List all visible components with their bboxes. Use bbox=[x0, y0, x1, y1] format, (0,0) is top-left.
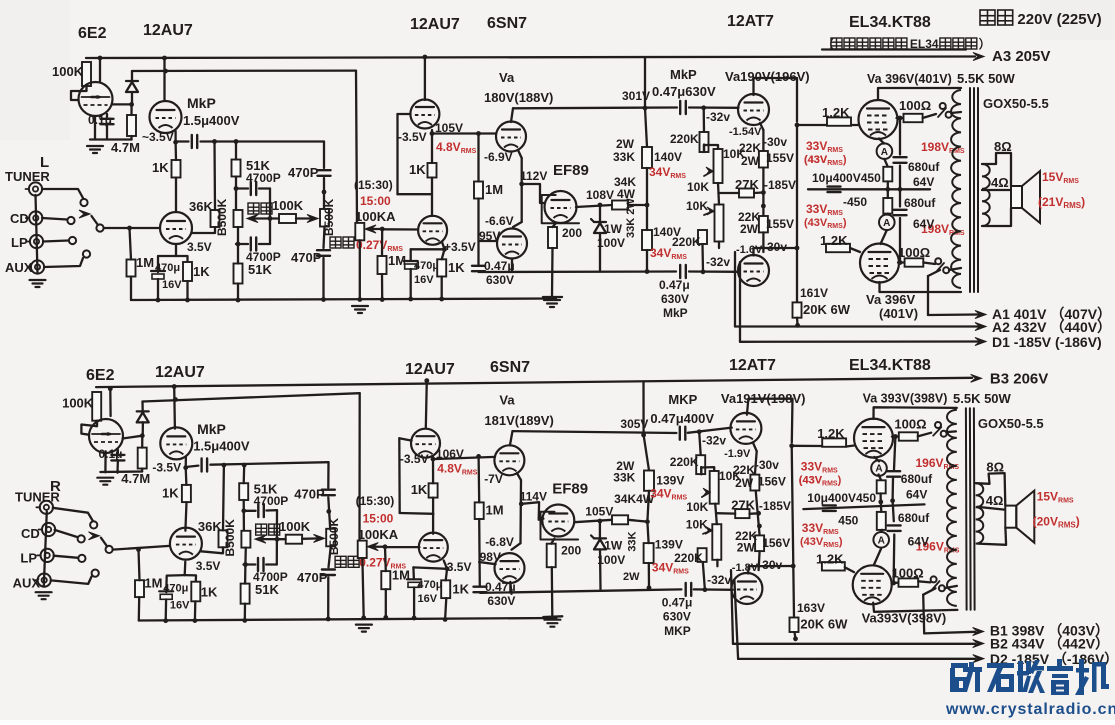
junction rail2 V2 bbox=[173, 397, 178, 402]
resistor 1M grid bbox=[135, 580, 144, 597]
wire cathode bus bbox=[803, 504, 924, 509]
tube 6SN7a bbox=[494, 445, 524, 475]
capacitor 680uf upper bbox=[887, 470, 900, 472]
wire 20K to A2 bbox=[795, 632, 796, 639]
resistor 34K 4W bbox=[612, 201, 628, 210]
resistor 450 lower bbox=[883, 198, 892, 214]
svg-text:180V(188V): 180V(188V) bbox=[484, 90, 553, 105]
junction bbox=[412, 616, 417, 621]
svg-text:680uf: 680uf bbox=[908, 160, 940, 174]
svg-text:156V: 156V bbox=[758, 474, 786, 488]
svg-text:6SN7: 6SN7 bbox=[490, 359, 530, 376]
junction bbox=[321, 297, 326, 302]
wire 470u to gnd bbox=[157, 279, 159, 300]
zener 1W 100V bbox=[594, 537, 606, 539]
wire 12AT7a plate bbox=[754, 78, 798, 122]
wire 470P low bbox=[323, 178, 325, 209]
svg-text:105V: 105V bbox=[585, 504, 613, 518]
potentiometer 100KA bbox=[355, 223, 364, 240]
wire 27K right bbox=[750, 512, 759, 515]
wire 4.7M lead bbox=[141, 436, 143, 448]
wire 200 gnd bbox=[551, 248, 554, 297]
wire V3 plate drop bbox=[426, 381, 427, 428]
switch blade low bbox=[931, 581, 939, 590]
wire pivot to grid bbox=[104, 227, 160, 229]
wire treble bottom bbox=[329, 546, 331, 567]
switch contact c bbox=[931, 576, 937, 582]
wire pot top link bbox=[701, 467, 714, 474]
wire secondary bottom bbox=[977, 528, 1006, 545]
wire 220K low gnd bbox=[701, 244, 704, 272]
svg-text:10K: 10K bbox=[686, 517, 708, 531]
wire 12AT7b plate bbox=[748, 566, 793, 574]
svg-text:163V: 163V bbox=[797, 601, 825, 615]
wire screen low bbox=[892, 581, 899, 584]
junction 51K low bbox=[236, 242, 241, 247]
wire 33K low bottom bbox=[648, 563, 651, 588]
wire V2 plate drop bbox=[163, 58, 165, 101]
svg-text:4.7M: 4.7M bbox=[121, 471, 150, 486]
resistor 22K 2W upper bbox=[759, 151, 768, 168]
tube 12AU7b bbox=[160, 212, 192, 244]
label bass CJK bbox=[248, 203, 259, 214]
ground 6E2 bbox=[97, 477, 113, 479]
svg-text:B500K: B500K bbox=[327, 517, 341, 555]
jack TUNER bbox=[40, 501, 53, 514]
wire pivot to grid bbox=[113, 546, 170, 550]
svg-text:100K: 100K bbox=[279, 519, 311, 534]
tube 12AU7b bbox=[170, 528, 202, 560]
capacitor 4700P lower bbox=[250, 238, 252, 251]
capacitor 4700P upper bbox=[250, 182, 252, 195]
wire V3 grid link bbox=[400, 512, 434, 515]
wire rail2 bbox=[132, 69, 356, 72]
wire plate rail bbox=[513, 106, 677, 109]
transformer core bbox=[969, 88, 971, 292]
wire screen bbox=[897, 117, 904, 119]
resistor 100K bbox=[82, 62, 91, 86]
wire D1 drop bbox=[739, 262, 741, 342]
wire to EF89 grid bbox=[522, 184, 545, 203]
svg-text:100V: 100V bbox=[597, 553, 625, 567]
svg-text:16V: 16V bbox=[418, 593, 438, 605]
selector pivot bbox=[106, 546, 113, 553]
svg-text:-32v: -32v bbox=[707, 573, 731, 587]
wire 4700P low right bbox=[259, 243, 270, 245]
junction bass wiper bbox=[268, 216, 273, 221]
svg-text:680uf: 680uf bbox=[901, 472, 933, 486]
ammeter A upper bbox=[877, 143, 893, 159]
wire cathode to cap bbox=[176, 140, 189, 142]
resistor 1.2K upper bbox=[827, 117, 851, 125]
tube EL34b bbox=[853, 565, 892, 604]
capacitor 470u 16V V4 bbox=[407, 578, 421, 580]
svg-text:33K: 33K bbox=[613, 150, 635, 164]
wire 33K feed2 bbox=[645, 108, 647, 147]
zener 1W 100V bbox=[594, 221, 606, 223]
svg-text:B2 434V （442V）: B2 434V （442V） bbox=[990, 636, 1109, 652]
capacitor 0.47u 630V bbox=[472, 265, 485, 267]
junction grid2 bbox=[701, 269, 706, 274]
svg-text:1K: 1K bbox=[152, 160, 169, 175]
switch blade low bbox=[936, 263, 944, 272]
svg-text:Va: Va bbox=[499, 393, 515, 408]
svg-text:27K: 27K bbox=[735, 177, 759, 192]
wire 4.7M lead bbox=[130, 104, 132, 115]
arrowhead B3 bbox=[971, 374, 982, 382]
svg-text:10K: 10K bbox=[687, 180, 709, 194]
resistor 100R lower bbox=[899, 578, 919, 586]
svg-text:630V: 630V bbox=[663, 610, 691, 624]
wire ground bus bbox=[139, 618, 557, 621]
junction bbox=[242, 618, 247, 623]
wire 51K low gnd bbox=[237, 284, 239, 301]
svg-text:TUNER: TUNER bbox=[5, 169, 50, 184]
wire wiper to grid bbox=[385, 546, 419, 548]
junction bbox=[357, 297, 362, 302]
contact TUNER bbox=[80, 199, 87, 206]
wire 680 low bbox=[891, 478, 894, 501]
svg-text:Va: Va bbox=[499, 70, 515, 85]
wire 1K to V2b plate bbox=[175, 178, 177, 213]
tube EL34a bbox=[854, 419, 893, 458]
svg-text:450: 450 bbox=[838, 513, 858, 527]
selector pivot bbox=[96, 224, 103, 231]
wire 51K bottom bbox=[235, 177, 237, 211]
svg-text:10μ400V450: 10μ400V450 bbox=[812, 171, 881, 185]
wire 27K left bbox=[716, 512, 735, 515]
capacitor 0.47u 630V bbox=[474, 586, 487, 588]
ground mid bbox=[356, 623, 372, 625]
wire 680 drop bbox=[894, 437, 895, 470]
svg-text:1M: 1M bbox=[485, 182, 503, 197]
tube 12AU7c bbox=[410, 100, 439, 129]
tube 12AT7b bbox=[738, 255, 769, 286]
wire A1 link bbox=[923, 588, 935, 594]
wire 4700P low left bbox=[236, 243, 248, 245]
svg-text:MKP: MKP bbox=[668, 392, 697, 407]
wire 1K V4 gnd bbox=[445, 598, 446, 619]
wire 1K bottom bbox=[432, 498, 434, 534]
svg-text:4Ω: 4Ω bbox=[991, 175, 1009, 190]
resistor 36K bbox=[219, 530, 228, 547]
arrowhead A2 bbox=[975, 323, 986, 331]
ground EF89 bbox=[544, 619, 560, 621]
wire diode top bbox=[131, 71, 133, 81]
wire screen bbox=[892, 435, 899, 437]
svg-text:12AT7: 12AT7 bbox=[727, 13, 774, 30]
tube 12AU7c bbox=[411, 429, 440, 458]
svg-text:470P: 470P bbox=[297, 570, 328, 585]
arrowhead D1 bbox=[973, 655, 984, 663]
ground 6E2 bbox=[87, 145, 103, 147]
wire tone top link bbox=[323, 142, 325, 169]
svg-text:139V: 139V bbox=[655, 538, 683, 552]
junction 51K low bbox=[243, 562, 248, 567]
wire zener top bbox=[599, 205, 601, 222]
junction 112V bbox=[519, 182, 524, 187]
resistor 4.7M bbox=[138, 448, 147, 469]
svg-text:6E2: 6E2 bbox=[86, 367, 115, 384]
svg-text:1M: 1M bbox=[144, 576, 162, 591]
wire A1 drop bbox=[927, 276, 929, 315]
contact LP bbox=[78, 555, 85, 562]
resistor 1K V3 bbox=[428, 163, 437, 178]
capacitor MkP 1.5u400V bbox=[200, 459, 202, 472]
svg-text:630V: 630V bbox=[486, 273, 514, 287]
switch blade bbox=[938, 108, 946, 117]
junction bbox=[383, 615, 388, 620]
wire 1M down bbox=[478, 519, 481, 586]
wire cath chain2 bbox=[756, 491, 760, 536]
wire 51K top bbox=[243, 465, 246, 483]
svg-text:1K: 1K bbox=[409, 162, 426, 177]
tube 6E2 bbox=[89, 419, 123, 453]
wire 4700P low left bbox=[244, 563, 256, 565]
capacitor 680uf lower bbox=[888, 524, 901, 526]
svg-text:0.47μ400V: 0.47μ400V bbox=[650, 411, 714, 426]
wire cathode left to 470u bbox=[166, 575, 184, 592]
svg-text:EL34.KT88: EL34.KT88 bbox=[849, 357, 931, 374]
svg-text:A2 432V （440V）: A2 432V （440V） bbox=[992, 319, 1111, 335]
wire 33K low bottom bbox=[646, 250, 648, 272]
wire cap to 12AT7a grid bbox=[688, 428, 732, 433]
wire 1K V4 gnd bbox=[441, 277, 443, 300]
resistor 51K lower bbox=[241, 584, 250, 604]
wire 1M to gnd bbox=[138, 597, 141, 620]
junction zener bbox=[598, 519, 603, 524]
wire cath to 12AT7b bbox=[762, 232, 764, 252]
wire 1M to gnd bbox=[130, 277, 132, 301]
svg-text:114V: 114V bbox=[520, 489, 547, 503]
capacitor 470P lower bbox=[317, 249, 330, 251]
svg-text:MKP: MKP bbox=[664, 624, 691, 638]
wire 1.2K to grid bbox=[851, 124, 859, 126]
wire screen sw bbox=[918, 433, 931, 437]
wire gnd bus EF89 bbox=[543, 296, 562, 298]
capacitor 680uf lower bbox=[894, 209, 907, 211]
wire bypass vertical bbox=[276, 510, 279, 564]
wire pot bottom bbox=[714, 504, 717, 514]
wire 33K feed2 bbox=[644, 435, 649, 471]
svg-text:~3.5V: ~3.5V bbox=[142, 130, 174, 144]
arrowhead D1 bbox=[975, 338, 986, 346]
wire 51K top bbox=[235, 142, 237, 160]
svg-text:1M: 1M bbox=[486, 503, 504, 518]
capacitor 470P upper bbox=[322, 489, 335, 491]
resistor 450 lower bbox=[877, 512, 886, 530]
svg-text:220K: 220K bbox=[674, 551, 703, 565]
wire 6SN7a plate bbox=[511, 108, 513, 122]
svg-text:(15:30): (15:30) bbox=[354, 178, 393, 192]
wire 680low bottom bbox=[899, 218, 901, 263]
junction 301V bbox=[641, 433, 646, 438]
capacitor 0.1u bbox=[101, 118, 114, 120]
wire wiper link bbox=[257, 538, 286, 540]
capacitor MkP 1.5u400V bbox=[191, 135, 193, 148]
svg-text:33K: 33K bbox=[613, 471, 635, 485]
wire 27K right bbox=[754, 191, 763, 194]
svg-text:64V: 64V bbox=[906, 487, 927, 501]
wire 220K drop bbox=[703, 108, 706, 132]
wire diode top bbox=[141, 402, 143, 412]
junction 140V bbox=[645, 203, 650, 208]
svg-text:(15:30): (15:30) bbox=[356, 494, 395, 508]
resistor 1K V2a cathode bbox=[182, 485, 191, 502]
svg-text:）: ） bbox=[979, 36, 991, 51]
wire cathode left to 470u bbox=[158, 256, 176, 272]
resistor 22K 2W upper bbox=[750, 475, 759, 491]
svg-text:100K: 100K bbox=[272, 198, 304, 213]
svg-text:0.47μ: 0.47μ bbox=[662, 596, 693, 610]
selector wiper arm bbox=[92, 216, 99, 225]
wire cath chain bbox=[755, 451, 757, 474]
wiper 10K upper bbox=[704, 171, 713, 176]
wire sw to tap low bbox=[949, 268, 961, 270]
junction 680 top bbox=[893, 434, 898, 439]
switch contact d bbox=[939, 585, 945, 591]
svg-text:220K: 220K bbox=[672, 235, 701, 249]
wire sw to tap bbox=[946, 430, 956, 433]
resistor 220K lower bbox=[698, 230, 707, 244]
tube 6SN7a bbox=[496, 122, 526, 152]
junction bbox=[108, 386, 113, 391]
svg-text:-3.5V: -3.5V bbox=[152, 460, 181, 474]
contact LP bbox=[69, 237, 76, 244]
capacitor 0.47u MkP bbox=[679, 101, 681, 114]
wire cathode right to 1K bbox=[185, 575, 196, 582]
wire V3 grid drop bbox=[398, 438, 401, 513]
wire 6E2 supply drop bbox=[109, 389, 112, 416]
wire 100K to 6E2 grid bbox=[81, 421, 97, 435]
wire pot bottom bbox=[717, 183, 720, 193]
junction -185V bbox=[756, 511, 761, 516]
svg-text:8Ω: 8Ω bbox=[994, 139, 1012, 154]
wire 1K lead top bbox=[174, 142, 177, 160]
svg-text:200: 200 bbox=[561, 544, 581, 558]
svg-text:1.2K: 1.2K bbox=[816, 551, 844, 566]
wire V2 plate drop bbox=[173, 387, 176, 429]
junction -185V bbox=[761, 190, 766, 195]
svg-text:AUX: AUX bbox=[13, 575, 41, 590]
wire volume wiper bbox=[367, 228, 382, 230]
svg-text:155V: 155V bbox=[766, 217, 794, 231]
wire cathode drop bbox=[521, 158, 523, 222]
junction cathode bbox=[183, 465, 188, 470]
wire 680low top bbox=[899, 189, 901, 206]
treble wiper arrowhead bbox=[307, 215, 318, 223]
resistor 1.2K lower bbox=[822, 562, 845, 570]
junction cath2 bbox=[757, 524, 762, 529]
wire 1K to gnd bbox=[194, 601, 197, 620]
wire V3 cathode bbox=[431, 130, 433, 134]
svg-text:12AU7: 12AU7 bbox=[410, 16, 460, 33]
potentiometer 10K upper bbox=[714, 149, 723, 183]
wire V3 grid drop bbox=[396, 114, 398, 194]
svg-text:3.5V: 3.5V bbox=[196, 559, 221, 573]
wire 450low to A bbox=[880, 530, 883, 531]
wire 27K left bbox=[719, 192, 740, 194]
junction treble top bbox=[322, 190, 327, 195]
wire 12AT7a cathode bbox=[753, 443, 757, 451]
ground input bbox=[30, 279, 46, 281]
svg-text:EF89: EF89 bbox=[553, 162, 589, 179]
wire screen sw low bbox=[923, 263, 935, 265]
wire 450low to A bbox=[887, 212, 888, 215]
wire 6SN7b cathode bbox=[511, 259, 513, 273]
svg-text:16V: 16V bbox=[170, 600, 190, 612]
wire zener bottom bbox=[599, 233, 601, 272]
wire 450 to bus bbox=[887, 181, 889, 189]
wire 1K bottom bbox=[431, 178, 433, 217]
resistor 1M grid bbox=[127, 260, 136, 277]
svg-text:EF89: EF89 bbox=[552, 480, 588, 497]
svg-text:A: A bbox=[883, 218, 890, 229]
junction A2 bbox=[793, 636, 798, 641]
wire bass pot bottom bbox=[237, 227, 239, 244]
svg-text:12AU7: 12AU7 bbox=[143, 22, 193, 39]
svg-text:470μ: 470μ bbox=[417, 579, 442, 591]
wire 51K low top bbox=[244, 565, 247, 584]
resistor 51K lower bbox=[234, 264, 243, 284]
svg-text:-32v: -32v bbox=[706, 255, 730, 269]
capacitor 0.47u MkP low bbox=[679, 265, 681, 278]
resistor 1.2K lower bbox=[826, 244, 850, 252]
svg-text:100K: 100K bbox=[62, 396, 94, 411]
wire wiper link bbox=[249, 217, 279, 219]
jack AUX bbox=[31, 260, 44, 273]
resistor 1M 6SN7 bbox=[474, 182, 483, 199]
junction wiper bbox=[383, 544, 388, 549]
wire D1 line bbox=[738, 658, 975, 660]
svg-text:-30v: -30v bbox=[763, 135, 787, 149]
wire pot2 top bbox=[715, 513, 718, 524]
junction bbox=[380, 297, 385, 302]
resistor 27K bbox=[735, 509, 749, 518]
resistor 220K upper bbox=[696, 455, 705, 474]
junction bbox=[408, 297, 413, 302]
wire grid 6SN7b bbox=[479, 240, 498, 242]
svg-text:5.5K 50W: 5.5K 50W bbox=[957, 71, 1016, 86]
arrowhead A2 bbox=[973, 640, 984, 648]
wire gnd bus 6E2 bbox=[90, 138, 132, 140]
wire 470u to gnd bbox=[165, 599, 168, 620]
wire zener top bbox=[599, 521, 601, 538]
wire 33K feed bbox=[642, 382, 644, 435]
wire cath chain bbox=[762, 130, 764, 151]
wire V4 cathode bbox=[442, 242, 445, 249]
wire 470u gnd bbox=[413, 587, 415, 618]
svg-text:2W: 2W bbox=[616, 137, 635, 151]
transformer primary winding bbox=[951, 90, 961, 288]
junction 680 low bbox=[898, 260, 903, 265]
svg-text:4700P: 4700P bbox=[246, 171, 281, 185]
svg-text:12AU7: 12AU7 bbox=[405, 361, 455, 378]
wire AUX to contact bbox=[44, 258, 83, 267]
svg-text:470μ: 470μ bbox=[163, 582, 188, 594]
svg-text:15:00: 15:00 bbox=[360, 194, 391, 208]
wire 12AT7a cathode bbox=[760, 123, 763, 130]
switch blade bbox=[933, 427, 941, 436]
wire signal bus low bbox=[479, 270, 677, 273]
resistor 100K tone bbox=[286, 535, 302, 544]
wire secondary top bbox=[976, 473, 1006, 506]
wire 1M top bbox=[384, 547, 387, 571]
svg-text:100K: 100K bbox=[52, 64, 84, 79]
resistor 1K V4 bbox=[441, 580, 450, 598]
wire 105V node bbox=[433, 457, 495, 459]
potentiometer B500K treble bbox=[326, 529, 335, 547]
